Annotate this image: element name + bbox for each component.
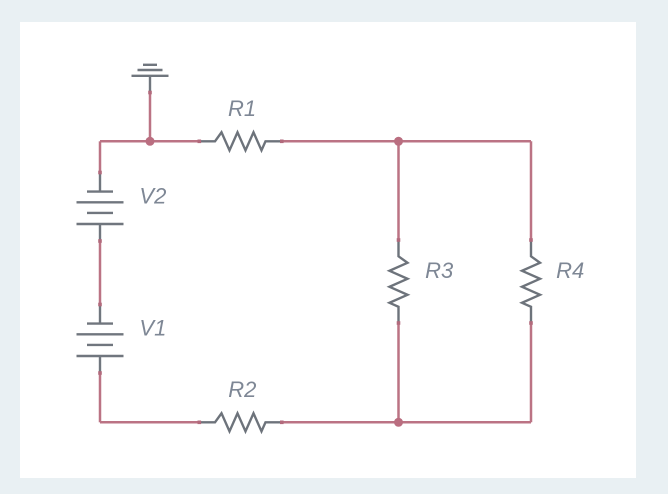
terminal: R4 top <box>529 238 533 242</box>
wire: bottom net from corner to R2 left terminal <box>100 421 199 424</box>
battery V2 <box>77 173 124 241</box>
terminal: R1 right <box>280 140 284 144</box>
battery V1 <box>77 305 124 373</box>
wire: left rail V2 bottom to V1 top <box>99 241 102 305</box>
wire: top net from left corner to R1 left terminal <box>100 140 199 143</box>
terminal: V2 top <box>98 171 102 175</box>
terminal: R4 bottom <box>529 321 533 325</box>
resistor R3 <box>390 240 408 323</box>
wire: ground stem (rose part) down to top net <box>149 93 152 142</box>
resistor R1 <box>199 132 281 150</box>
junction node: ground / top net <box>146 137 155 146</box>
wire: left rail corner to V2 top terminal <box>99 141 102 172</box>
wire: R3 branch lower <box>397 323 400 422</box>
terminal: V1 bottom <box>98 371 102 375</box>
terminal: R1 left <box>198 140 202 144</box>
resistor R2 <box>199 413 281 431</box>
svg-text:V2: V2 <box>139 183 166 208</box>
terminal: R2 left <box>198 421 202 425</box>
terminal: R2 right <box>280 421 284 425</box>
svg-text:R4: R4 <box>556 258 584 283</box>
junction node: R3 bottom / bottom net <box>394 418 403 427</box>
resistor R4 <box>522 240 540 323</box>
wire: R4 branch upper <box>530 141 533 240</box>
ground symbol <box>132 65 169 92</box>
svg-text:R2: R2 <box>228 377 256 402</box>
svg-text:V1: V1 <box>139 315 166 340</box>
wire: left rail V1 bottom to bottom-left corner <box>99 373 102 422</box>
svg-text:R3: R3 <box>425 258 454 283</box>
terminal: ground <box>148 91 152 95</box>
terminal: V2 bottom <box>98 239 102 243</box>
wire: top net from R1 right terminal to top-right corner (R4 branch) <box>282 140 531 143</box>
terminal: R3 top <box>397 238 401 242</box>
wire: R3 branch upper <box>397 141 400 240</box>
junction node: R3 top / top net <box>394 137 403 146</box>
terminal: R3 bottom <box>397 321 401 325</box>
terminal: V1 top <box>98 303 102 307</box>
wire: R4 branch lower <box>530 323 533 422</box>
wire: bottom net from R2 right terminal to bottom-right corner <box>282 421 531 424</box>
svg-text:R1: R1 <box>228 96 256 121</box>
